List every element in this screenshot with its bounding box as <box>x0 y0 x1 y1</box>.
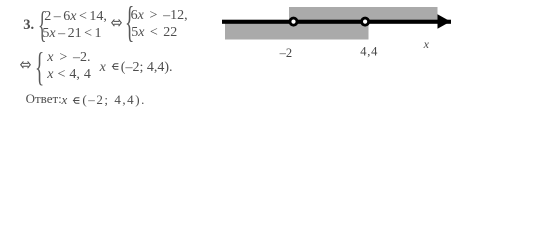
axis line <box>222 20 451 24</box>
item number 3. <box>23 18 34 33</box>
system 3 row 1: x > -2. <box>47 51 90 65</box>
answer element-of symbol <box>71 97 80 104</box>
answer interval (-2; 4,4). <box>82 93 146 106</box>
system 3 row 2: x < 4, 4 <box>47 68 91 82</box>
equivalence arrow 1 <box>111 19 122 27</box>
open circle at -2 <box>290 18 297 25</box>
equivalence arrow 2 <box>20 61 31 69</box>
axis arrowhead <box>438 14 451 29</box>
interval element-of symbol <box>110 63 119 70</box>
answer word <box>26 92 62 105</box>
system 1 row 2: 5x - 21 < 1 <box>42 27 101 41</box>
interval result (-2; 4,4). <box>121 61 173 75</box>
interval result x part <box>100 61 106 75</box>
answer x <box>62 93 68 106</box>
svg-text:x: x <box>423 37 430 51</box>
system 2 left brace <box>125 0 134 47</box>
open circle at 4.4 <box>362 18 369 25</box>
gray strip x < 4.4 below axis <box>225 22 369 40</box>
system 2 row 1: 6x > -12, <box>131 9 188 23</box>
number line figure <box>215 0 460 60</box>
system 2 row 2: 5x < 22 <box>131 26 177 40</box>
gray strip x > -2 above axis <box>289 7 438 22</box>
svg-text:–2: –2 <box>279 46 293 60</box>
system 1 left brace <box>38 4 47 47</box>
system 3 left brace <box>35 43 44 90</box>
system 1 row 1: 2 - 6x < 14, <box>44 10 107 24</box>
svg-text:4,4: 4,4 <box>360 44 378 58</box>
